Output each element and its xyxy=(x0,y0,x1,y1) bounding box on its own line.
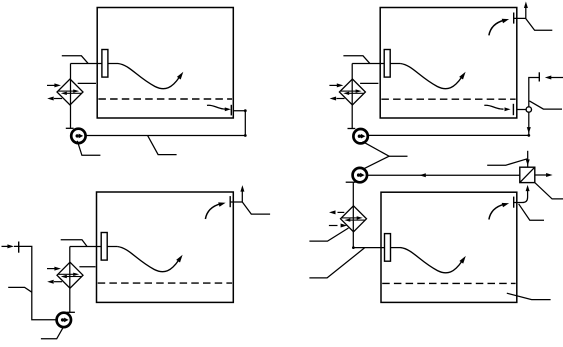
leader to vent T4 xyxy=(519,204,544,220)
spray flow curve with arrow in tank T3 xyxy=(117,247,182,272)
inlet pipe to tank T1 xyxy=(71,63,102,65)
heat exchanger E3 (diamond) xyxy=(57,262,83,288)
tank T3 xyxy=(97,192,234,302)
vent wall tick of tank T4 xyxy=(513,197,515,208)
leader to heat exchanger E2 xyxy=(360,82,378,84)
leader to heat exchanger E4 xyxy=(309,228,348,241)
pipe tick at pump P4 xyxy=(346,181,356,183)
fresh water pipe tick T3 xyxy=(18,242,20,253)
leader to filter F1 xyxy=(535,183,563,199)
make-up pipe tick T2 xyxy=(538,72,540,81)
make-up water inlet arrow T2 xyxy=(545,76,563,80)
leader to junction pipe T2 xyxy=(529,101,562,109)
air-in arrow of E3 xyxy=(47,267,61,271)
nozzle outlet stub T4 xyxy=(391,247,401,249)
suction pipe from filter to pump P4 xyxy=(367,173,520,177)
liquid level line in tank T2 xyxy=(381,98,515,100)
filter F1 xyxy=(520,167,535,182)
junction valve V2 xyxy=(526,107,531,112)
leader to inlet pipe T4 xyxy=(309,248,364,278)
air-out arrow of E3 xyxy=(47,280,62,284)
pump P1 xyxy=(71,129,85,143)
outlet wall tick T1 xyxy=(230,105,232,116)
vent pipe of tank T4 to filter xyxy=(514,185,530,203)
liquid level line in tank T4 xyxy=(382,282,515,284)
leader to fresh water pipe T3 xyxy=(8,287,32,292)
vent flow curve of tank T2 xyxy=(489,19,509,36)
spray flow curve with arrow in tank T1 xyxy=(118,64,183,89)
heat exchanger E2 (diamond) xyxy=(339,79,365,105)
pump discharge drop pipe P4 xyxy=(352,182,354,248)
fresh water inlet arrow T3 xyxy=(2,244,14,248)
spray nozzle T1 xyxy=(102,50,108,78)
spray nozzle T2 xyxy=(384,50,390,78)
inlet pipe to tank T4 xyxy=(352,246,385,249)
vent flow curve of tank T4 xyxy=(489,203,509,220)
leader to vent T2 xyxy=(526,19,553,31)
leader to heat exchanger E3 xyxy=(79,266,95,268)
outlet arrow of filter F1 xyxy=(535,173,553,177)
spray flow curve with arrow in tank T2 xyxy=(400,64,465,89)
air-in arrow of E4 xyxy=(329,224,347,228)
vent pipe of tank T3 xyxy=(230,185,244,202)
outlet wall tick T2 xyxy=(512,104,514,115)
air-out arrow of E1 xyxy=(47,97,62,101)
outlet flow curve in tank T2 xyxy=(484,105,510,111)
inlet pipe to tank T2 xyxy=(352,63,384,65)
leader to vent T3 xyxy=(243,202,271,214)
pipe tick at pump P2 xyxy=(348,128,356,130)
leader to inlet pipe T2 xyxy=(343,56,369,64)
air-in arrow of E2 xyxy=(329,83,343,87)
liquid level line in tank T1 xyxy=(98,98,232,100)
leader to pump P1 xyxy=(77,141,100,156)
pump P2 xyxy=(353,129,367,143)
vent pipe of tank T2 xyxy=(514,2,528,19)
pump discharge riser pipe P3 xyxy=(69,247,71,313)
vent flow curve of tank T3 xyxy=(205,202,225,219)
spray flow curve with arrow in tank T4 xyxy=(401,248,466,273)
liquid level line in tank T3 xyxy=(98,282,232,284)
spray nozzle T3 xyxy=(101,233,107,261)
vent wall tick of tank T2 xyxy=(513,13,515,24)
inlet stub into filter F1 with down arrow xyxy=(526,151,530,167)
nozzle outlet stub T3 xyxy=(107,246,117,248)
pump discharge riser pipe P2 xyxy=(351,64,353,129)
pump discharge riser pipe P1 xyxy=(70,64,72,129)
leader to inlet pipe T1 xyxy=(62,56,88,64)
suction pipe from tank T1 to pump P1 xyxy=(86,135,246,137)
leader to pump P3 xyxy=(41,327,64,339)
leader to heat exchanger E1 xyxy=(78,82,96,84)
pipe tick at pump P1 xyxy=(66,127,74,129)
leader to tank T4 shell xyxy=(507,293,551,299)
nozzle outlet stub T2 xyxy=(390,63,400,65)
spray nozzle T4 xyxy=(385,234,391,262)
heat exchanger E4 (diamond) xyxy=(341,206,367,232)
outlet pipe T2 to junction xyxy=(517,109,526,111)
return pipe corner T1 xyxy=(233,109,246,137)
pump P4 xyxy=(353,168,367,182)
vent wall tick of tank T3 xyxy=(229,196,231,207)
air-out arrow of E2 xyxy=(330,97,345,101)
leader to return pipe T1 xyxy=(148,136,177,155)
air-out arrow of E4 xyxy=(329,210,344,214)
fresh water supply pipe to pump P3 xyxy=(14,246,57,319)
nozzle outlet stub T1 xyxy=(108,63,118,65)
leader to filter inlet F1 xyxy=(487,159,527,165)
leader pair to pumps P2 and P4 xyxy=(362,142,408,170)
pump P3 xyxy=(57,313,71,327)
outlet flow curve in tank T1 xyxy=(207,105,231,111)
tank T4 xyxy=(381,192,517,302)
heat exchanger E1 (diamond) xyxy=(57,79,83,105)
leader to inlet pipe T3 xyxy=(61,240,87,246)
pipe tick at pump P3 xyxy=(67,311,75,313)
drop pipe from junction V2 with down arrow xyxy=(527,112,531,135)
air-in arrow of E1 xyxy=(47,83,61,87)
tank T1 xyxy=(97,8,233,119)
tank T2 xyxy=(380,8,517,119)
suction pipe from tank T2 to pump P2 xyxy=(368,134,530,137)
inlet pipe to tank T3 xyxy=(70,246,101,248)
make-up water pipe to junction V2 xyxy=(529,78,540,107)
